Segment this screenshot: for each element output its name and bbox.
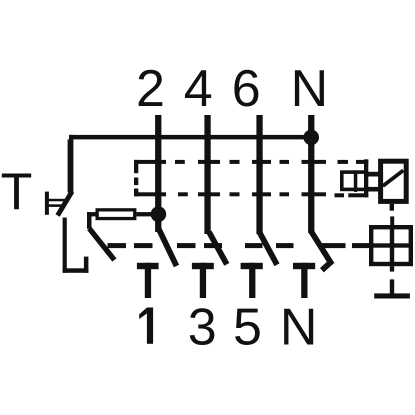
wire pole 6-line vertical: [256, 115, 262, 234]
wire pole N-line vertical: [308, 115, 314, 233]
wire square bottom stub: [390, 266, 394, 271]
svg-text:6: 6: [232, 60, 261, 118]
terminal T3: [192, 263, 214, 298]
wire bottom L horizontal: [63, 268, 89, 273]
switch pole1 blade: [159, 230, 177, 267]
node junction dot on pole 2-1 line: [151, 206, 167, 222]
resistor R test: [97, 210, 135, 219]
wire pole 2-line vertical: [155, 115, 161, 232]
svg-text:T: T: [1, 164, 33, 222]
terminal T1: [137, 263, 159, 298]
terminal TN: [293, 263, 315, 298]
wire coil bottom stub: [390, 204, 394, 211]
label 1 (drawn, helvetica-style without foot): [139, 308, 153, 344]
wire test button bottom terminal down: [63, 218, 67, 273]
wire relay square top stub: [390, 216, 394, 225]
svg-text:4: 4: [184, 60, 213, 118]
CT core lower dashed line: [134, 192, 368, 197]
test button lower prong: [47, 204, 64, 207]
wire resistor left: [87, 212, 96, 216]
svg-text:5: 5: [233, 299, 262, 357]
test button upper prong: [47, 199, 67, 202]
node junction dot on N line: [303, 130, 319, 146]
wire top bus horizontal: [69, 135, 312, 140]
svg-text:N: N: [291, 60, 329, 118]
relay square cross horizontal: [369, 243, 413, 247]
CT secondary winding box: [342, 172, 366, 189]
terminal T5: [241, 263, 263, 298]
switch pole3 blade: [260, 233, 277, 265]
switch aux test blade: [89, 229, 114, 261]
CT core upper dashed line: [134, 160, 368, 164]
CT core left dashed edge: [134, 160, 138, 196]
wire stub up to aux contact: [84, 257, 89, 273]
svg-text:N: N: [280, 299, 318, 357]
trip linkage dashed line: [108, 243, 370, 248]
ground bar: [374, 293, 410, 298]
wire resistor left corner down: [87, 212, 92, 229]
wire winding to coil top: [366, 172, 379, 177]
wire bus left corner down to test contact: [68, 135, 74, 193]
ground stem: [390, 279, 394, 294]
relay square cross vertical: [390, 225, 394, 266]
wire resistor right to node: [136, 212, 158, 216]
wire winding to coil bottom: [366, 187, 379, 192]
switch pole2 blade: [209, 232, 227, 264]
trip coil U1 box: [381, 161, 407, 201]
svg-text:3: 3: [188, 299, 217, 357]
CT secondary right solid bar: [364, 159, 368, 197]
svg-text:2: 2: [136, 60, 165, 118]
wire pole 4-line vertical: [204, 115, 210, 234]
relay square with cross: [371, 227, 411, 264]
switch test-contact blade: [58, 192, 72, 216]
test button cap bar: [45, 192, 49, 215]
trip coil diagonal: [383, 170, 403, 186]
switch poleN blade with kinked tip: [311, 232, 330, 271]
winding box divider: [354, 170, 358, 192]
